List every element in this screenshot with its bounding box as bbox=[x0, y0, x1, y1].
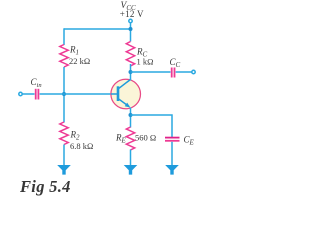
resistor R2 bbox=[60, 122, 68, 144]
svg-text:R2: R2 bbox=[70, 130, 81, 142]
resistor RE bbox=[126, 127, 134, 150]
emitter arrowhead bbox=[125, 103, 131, 108]
svg-text:RE: RE bbox=[115, 133, 127, 145]
transistor Q1 bbox=[111, 79, 141, 109]
svg-text:+12 V: +12 V bbox=[120, 9, 144, 19]
wire: left branch middle bbox=[63, 67, 65, 123]
wire: Cin to base bbox=[40, 93, 112, 95]
svg-text:560 Ω: 560 Ω bbox=[135, 133, 156, 143]
node: base junction bbox=[62, 92, 66, 96]
wire: Rc to collector bbox=[130, 64, 132, 81]
node: collector junction bbox=[129, 70, 133, 74]
svg-text:CE: CE bbox=[184, 135, 195, 147]
wire: top rail from R1 branch to Vcc node bbox=[64, 28, 131, 30]
svg-text:1 kΩ: 1 kΩ bbox=[137, 57, 154, 67]
transistor body bbox=[111, 79, 141, 109]
svg-text:CC: CC bbox=[170, 57, 181, 69]
wire: CE to ground bbox=[171, 142, 173, 166]
ground arrow (R2) bbox=[57, 165, 71, 175]
wire: input to Cin bbox=[23, 93, 35, 95]
svg-text:Cin: Cin bbox=[31, 77, 42, 89]
node: Vcc junction bbox=[129, 27, 133, 31]
ground arrow (RE) bbox=[124, 165, 138, 175]
node: emitter junction bbox=[129, 113, 133, 117]
terminal: Vcc bbox=[129, 19, 132, 22]
svg-text:Fig 5.4: Fig 5.4 bbox=[19, 177, 71, 196]
capacitor Cc bbox=[171, 68, 173, 78]
wire: emitter node to CE branch bbox=[131, 115, 173, 137]
svg-text:22 kΩ: 22 kΩ bbox=[69, 56, 90, 66]
emitter lead bbox=[118, 99, 129, 107]
resistor Rc bbox=[126, 42, 134, 67]
base lead bbox=[111, 93, 118, 95]
resistor R1 bbox=[60, 45, 68, 68]
wire: RE to ground bbox=[130, 150, 132, 167]
wire: R2 to ground bbox=[63, 145, 65, 167]
wire: left branch vertical top bbox=[63, 28, 65, 45]
wire: collector to Cc bbox=[131, 71, 171, 73]
wire: Cc to output bbox=[176, 71, 192, 73]
terminal: output bbox=[192, 70, 195, 73]
base bar bbox=[117, 86, 120, 101]
wire: Vcc terminal stub bbox=[130, 23, 132, 42]
collector lead bbox=[118, 80, 130, 89]
svg-text:R1: R1 bbox=[69, 45, 79, 57]
capacitor Cin bbox=[35, 89, 37, 100]
capacitor CE bbox=[165, 137, 180, 139]
svg-text:6.8 kΩ: 6.8 kΩ bbox=[70, 141, 93, 151]
terminal: input bbox=[19, 92, 22, 95]
ground arrow (CE) bbox=[165, 165, 179, 175]
wire: emitter down bbox=[130, 108, 132, 128]
